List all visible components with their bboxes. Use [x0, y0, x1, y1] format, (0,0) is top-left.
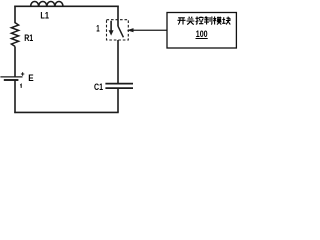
wire: bottom horizontal	[14, 111, 118, 113]
svg-text:L1: L1	[40, 11, 49, 22]
battery E positive plate	[0, 76, 22, 78]
wire: left vertical upper	[14, 6, 16, 24]
control arrowhead	[127, 28, 134, 32]
label 制 (module text char 4)	[204, 17, 212, 25]
capacitor C1 top plate	[105, 83, 133, 85]
wire: left vertical lower	[14, 80, 16, 113]
wire: left vertical middle	[14, 46, 16, 76]
inductor L1	[31, 1, 63, 6]
battery E negative plate	[4, 79, 19, 81]
wire: right vertical into switch	[117, 6, 119, 26]
svg-text:1: 1	[96, 24, 100, 35]
control line from module	[133, 29, 167, 31]
switch control module box	[167, 13, 236, 49]
resistor R1	[11, 23, 18, 47]
label 关 (module text char 2)	[187, 17, 195, 25]
label 控 (module text char 3)	[195, 16, 203, 24]
label 块 (module text char 6)	[222, 17, 230, 25]
underline of 100	[196, 38, 208, 40]
wire: switch to capacitor	[117, 40, 119, 83]
wire: capacitor to bottom wire	[117, 88, 119, 112]
capacitor C1 bottom plate	[105, 87, 133, 89]
svg-text:C1: C1	[94, 82, 104, 93]
label 开 (module text char 1)	[177, 18, 185, 25]
wire: top horizontal	[14, 5, 118, 7]
svg-text:E: E	[28, 73, 33, 84]
battery current mark i	[20, 84, 21, 88]
switch actuation arrow	[109, 21, 114, 36]
svg-text:100: 100	[196, 29, 208, 39]
svg-text:R1: R1	[24, 33, 34, 44]
battery plus sign	[21, 72, 24, 75]
label 模 (module text char 5)	[213, 17, 221, 25]
switch 1 blade	[118, 26, 124, 37]
switch dashed enclosure	[107, 20, 129, 40]
